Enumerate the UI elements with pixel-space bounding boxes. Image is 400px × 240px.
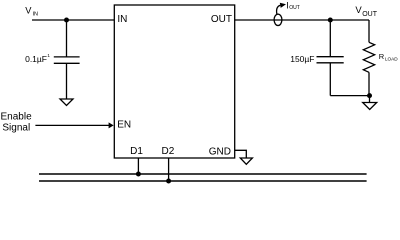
capacitor C2 bottom plate [317,62,344,64]
junction VIN / C1 [64,18,69,23]
regulator IC U1 body [114,5,234,158]
svg-text:OUT: OUT [289,5,300,11]
wire C1 bottom to ground [66,63,68,99]
junction D2 / rail2 [166,179,171,184]
svg-text:Signal: Signal [2,122,30,133]
svg-text:IN: IN [33,11,39,17]
svg-text:Enable: Enable [1,111,33,122]
wire bottom rail C2 to RLOAD [330,95,369,97]
capacitor C2 top plate [317,56,344,58]
svg-text:R: R [379,52,385,61]
ground (C1) [60,99,73,106]
capacitor C1 bottom plate [54,62,80,64]
wire junction down to C2 [329,20,331,57]
wire EN signal [35,124,109,126]
svg-text:GND: GND [209,146,231,157]
ground (GND pin) [240,158,252,164]
svg-text:EN: EN [117,120,131,131]
wire junction to C1 top [66,20,68,57]
wire VIN to IN pin [32,19,114,21]
wire RLOAD bottom [368,72,370,95]
wire pin D1 down [137,158,139,174]
svg-text:1: 1 [47,53,50,58]
svg-text:OUT: OUT [211,14,232,25]
svg-text:LOAD: LOAD [385,56,398,61]
wire pin D2 down [168,158,170,181]
ground rail 2 [39,180,367,182]
arrowhead EN [109,122,114,128]
junction OUT / C2 [328,18,333,23]
current probe IOUT arrowhead [280,3,286,8]
current probe IOUT arrow [277,5,281,14]
capacitor C1 top plate [54,56,80,58]
wire junction to ground [369,96,371,103]
ground rail 1 [39,173,367,175]
junction D1 / rail1 [136,172,141,177]
ground (output) [363,103,377,110]
wire GND pin [234,150,246,158]
svg-text:OUT: OUT [362,11,378,18]
current probe IOUT ellipse [274,14,282,25]
wire VOUT corner down to RLOAD [368,20,370,42]
svg-text:V: V [25,5,32,15]
resistor RLOAD zigzag [363,42,374,72]
svg-text:D1: D1 [130,146,143,157]
wire C2 bottom to rail [329,63,331,96]
wire OUT pin to VOUT corner [234,19,369,21]
svg-text:D2: D2 [162,146,175,157]
junction RLOAD / ground [367,93,372,98]
svg-text:IN: IN [117,14,127,25]
svg-text:150µF: 150µF [290,54,314,64]
svg-text:0.1µF: 0.1µF [25,54,47,64]
